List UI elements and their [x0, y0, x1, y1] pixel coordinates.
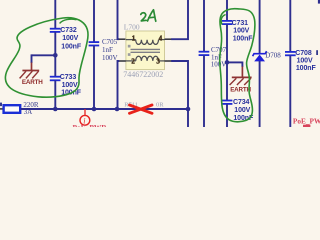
svg-text:100V: 100V — [102, 54, 118, 62]
pin 3 stub — [165, 60, 172, 62]
wire: column x=290 below C708 to bottom edge — [289, 56, 291, 127]
svg-text:PoE_PWR: PoE_PWR — [73, 123, 108, 127]
svg-text:100nF: 100nF — [233, 36, 254, 43]
capacitor C733 — [50, 74, 82, 96]
wire: earth2 stem drop — [241, 62, 243, 68]
capacitor C708 — [285, 50, 316, 72]
wire: column x=94 above C705 — [93, 0, 95, 42]
pin 1 stub — [119, 38, 126, 40]
svg-text:100nF: 100nF — [296, 65, 317, 72]
svg-text:2: 2 — [131, 58, 135, 66]
pin 2 stub — [119, 60, 126, 62]
svg-text:7446722002: 7446722002 — [123, 70, 163, 79]
svg-text:100V: 100V — [297, 58, 313, 65]
svg-text:L700: L700 — [124, 22, 140, 31]
wire: column x=117 to transformer pin1 — [118, 0, 120, 39]
wire: column x=204 below C707 to bottom edge — [203, 55, 205, 127]
wire: column x=204 C707 above — [203, 0, 205, 51]
wire: column x=227 C731 to junction — [226, 24, 228, 62]
capacitor C732 — [50, 27, 82, 51]
node: bus junction x=94 — [92, 107, 97, 112]
svg-text:EARTH: EARTH — [22, 79, 43, 86]
wire: column x=227 junction to C734 — [226, 62, 228, 100]
capacitor C731 — [222, 20, 253, 43]
wire: pin2 down to bus — [118, 61, 120, 109]
wire: earth stem drop — [31, 54, 33, 63]
node: junction at (227,62) — [225, 60, 230, 65]
wire: column x=260 above D708 — [259, 0, 261, 53]
wire: pin3 to column x=188 down to bottom edge — [171, 61, 188, 127]
svg-text:4: 4 — [159, 35, 163, 43]
svg-text:C732: C732 — [60, 27, 77, 34]
svg-text:100V: 100V — [234, 107, 250, 114]
fuse F? 220R 3A — [0, 101, 39, 116]
svg-text:100nF: 100nF — [61, 44, 82, 51]
capacitor C707 — [199, 46, 227, 68]
annotation: handwritten 2A — [141, 10, 156, 21]
node: bus junction x=55 — [53, 107, 58, 112]
svg-text:C708: C708 — [295, 50, 312, 57]
cropped glyph top right corner — [318, 0, 320, 4]
svg-text:100V: 100V — [62, 35, 78, 42]
svg-text:0R: 0R — [156, 102, 164, 109]
wire: pin4 to column x=188 up — [171, 0, 188, 39]
wire: column x=260 below D708 to bottom edge — [259, 61, 261, 127]
info marker circled i — [80, 109, 90, 125]
svg-text:100V: 100V — [211, 61, 227, 69]
wire: horizontal to earth branch — [32, 54, 56, 56]
svg-text:C705: C705 — [102, 38, 118, 46]
diode D708 (zener) — [253, 51, 282, 61]
wire: horizontal to earth2 — [227, 61, 242, 63]
svg-text:100V: 100V — [233, 28, 249, 35]
wire: column x=227 below C734 to bottom edge — [226, 104, 228, 127]
svg-text:3: 3 — [156, 58, 160, 66]
ground: EARTH symbol right — [230, 67, 252, 94]
wire: column x=55 above C732 — [54, 0, 56, 28]
node: bus junction x=188 — [186, 107, 191, 112]
svg-text:1nF: 1nF — [102, 46, 113, 54]
wire: column x=290 above C708 — [289, 0, 291, 52]
wire: column x=55 C733 to bus — [54, 81, 56, 109]
capacitor C705 — [89, 38, 118, 62]
wire: column x=94 below C705 to bus — [93, 46, 95, 109]
pin 4 stub — [165, 38, 172, 40]
wire: column x=55 junction to C733 — [54, 55, 56, 76]
svg-text:C731: C731 — [232, 20, 249, 27]
annotation: green loop left — [5, 18, 88, 98]
red X deletion mark over R711 — [130, 105, 153, 113]
svg-text:D708: D708 — [265, 52, 281, 60]
clipped red mark bottom right — [303, 125, 310, 127]
svg-text:C733: C733 — [60, 74, 77, 81]
cropped glyph right edge near C708 — [316, 50, 318, 55]
resistor R711 0R (not fitted, greyed) — [124, 102, 164, 109]
svg-text:1: 1 — [132, 35, 136, 43]
node: bus junction x=117 — [115, 107, 120, 112]
capacitor C734 — [222, 99, 254, 122]
wire: column x=55 between C732 and junction — [54, 32, 56, 55]
svg-text:PoE_PW: PoE_PW — [293, 116, 320, 125]
ground: EARTH symbol left — [20, 63, 44, 87]
transformer L700 — [123, 22, 164, 79]
partial cropped glyph at left edge — [0, 103, 2, 107]
wire: column x=227 above C731 — [226, 0, 228, 21]
annotation: green loop right start hook — [221, 15, 225, 24]
annotation: green loop left start hook — [60, 19, 76, 23]
wire: bottom bus — [21, 108, 189, 110]
svg-text:C734: C734 — [233, 99, 250, 106]
svg-text:100V: 100V — [62, 82, 78, 89]
annotation: green loop right — [220, 9, 255, 122]
node: junction at (55,55) — [53, 53, 58, 58]
